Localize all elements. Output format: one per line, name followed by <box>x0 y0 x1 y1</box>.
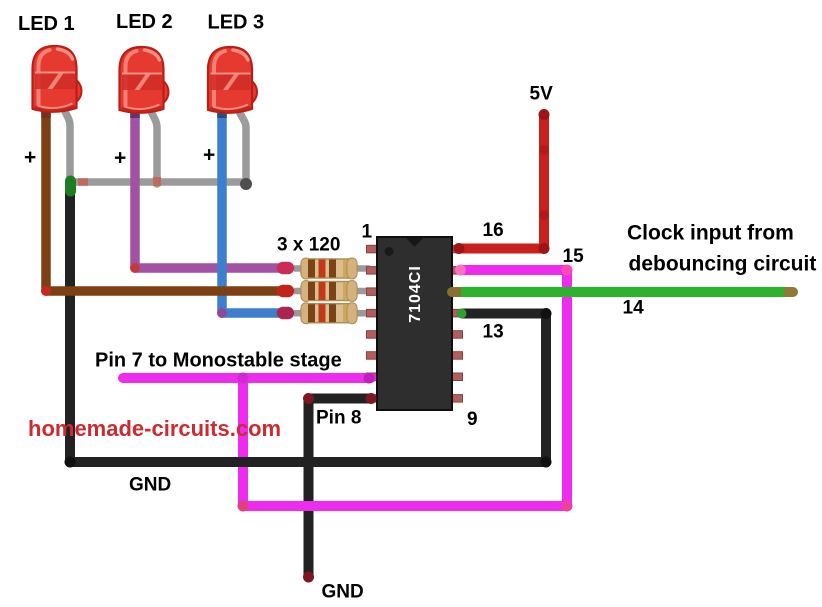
junction: dark cap bus right end <box>240 178 252 190</box>
resistor R1 120 ohm <box>301 258 357 279</box>
junction: red dot purple corner <box>130 263 140 273</box>
junction: corner dot <box>65 457 76 468</box>
wire: purple LED2 anode wire <box>135 108 281 268</box>
junction: red dot brown corner <box>41 286 51 296</box>
wire: pin 8 black wire <box>309 399 372 577</box>
wire: gray lead resistor R3 left <box>294 310 303 317</box>
svg-text:+: + <box>203 144 215 167</box>
wire: black GND net (left riser, bottom bus, right riser, pin13 run) <box>70 188 546 462</box>
node: pink cap at pin 15 <box>455 265 466 276</box>
svg-text:1: 1 <box>362 222 373 243</box>
svg-text:3 x 120: 3 x 120 <box>277 235 340 256</box>
svg-text:+: + <box>24 146 36 169</box>
wire: magenta pin 15 route <box>243 270 567 506</box>
svg-text:homemade-circuits.com: homemade-circuits.com <box>28 416 281 441</box>
wire: gray lead resistor R1 right to pin 2 <box>355 265 370 272</box>
svg-text:Pin 8: Pin 8 <box>316 408 361 429</box>
svg-text:GND: GND <box>322 582 364 603</box>
wire: magenta riser (under GND bus) <box>238 378 248 506</box>
junction: rose corner dot <box>238 501 249 512</box>
junction: dark red dot pin8 corner <box>303 393 314 404</box>
svg-text:5V: 5V <box>530 84 554 105</box>
resistor R2 120 ohm <box>301 281 357 302</box>
LED D1 <box>33 46 82 112</box>
junction: pink corner dot <box>562 501 573 512</box>
svg-text:LED 2: LED 2 <box>116 11 173 33</box>
svg-text:14: 14 <box>623 298 645 319</box>
junction: corner dot <box>541 457 552 468</box>
wire: red 5V wire pin 16 <box>456 116 544 249</box>
wire: LED1 cathode gray lead <box>63 106 70 184</box>
svg-text:13: 13 <box>483 322 504 343</box>
svg-text:LED 1: LED 1 <box>18 13 75 35</box>
node: green junction cap (cathode bus to GND) <box>65 181 76 191</box>
node: dark red dot at pin 8 <box>366 393 377 404</box>
svg-text:debouncing circuit: debouncing circuit <box>629 253 817 276</box>
wire: brown LED1 anode wire <box>46 108 281 291</box>
wire: LED1 anode stub <box>41 105 51 118</box>
junction: salmon segment on bus <box>78 178 88 186</box>
wire: gray lead resistor R2 right to pin 3 <box>355 288 370 295</box>
node: green cap at pin 13 <box>457 309 467 319</box>
svg-text:7104CI: 7104CI <box>407 265 424 323</box>
wire: green clock wire pin 14 <box>461 287 788 297</box>
node: crimson cap purple wire end <box>283 262 288 275</box>
junction: dark red corner dot <box>539 243 550 254</box>
node: red cap 5V end <box>539 109 550 120</box>
svg-text:15: 15 <box>563 246 585 267</box>
wire: LED2 anode stub <box>130 105 140 118</box>
wire: LED3 anode stub <box>217 105 227 118</box>
node: dark red GND cap bottom <box>303 572 314 583</box>
node: olive tip right end <box>788 287 793 297</box>
svg-text:LED 3: LED 3 <box>208 12 265 34</box>
svg-text:Clock input from: Clock input from <box>627 222 794 245</box>
wire: gray lead resistor R2 left <box>294 288 303 295</box>
junction: red wire joint <box>539 210 549 220</box>
junction: purple dot blue corner <box>217 308 227 318</box>
svg-text:Pin 7 to Monostable stage: Pin 7 to Monostable stage <box>95 350 342 372</box>
junction: tee dot <box>238 373 249 384</box>
wire: LED2 cathode gray lead <box>150 108 157 184</box>
node: dark red dot at pin 16 <box>454 243 465 254</box>
junction: pink corner dot <box>562 265 573 276</box>
wire: gray lead resistor R1 left <box>294 265 303 272</box>
wire: gray lead resistor R3 right to pin 4 <box>355 310 370 317</box>
svg-text:GND: GND <box>129 475 171 496</box>
wire: blue LED3 anode wire <box>222 108 281 313</box>
junction: salmon cap LED2 cathode <box>153 177 161 186</box>
wire: gray cathode bus <box>70 178 246 186</box>
IC U1 IC4017 <box>367 237 463 410</box>
svg-text:16: 16 <box>483 220 504 241</box>
svg-text:+: + <box>114 147 126 170</box>
junction: red wire joint <box>539 145 549 155</box>
node: dark magenta dot at pin 7 <box>364 373 375 384</box>
junction: corner dot <box>541 308 552 319</box>
node: crimson cap blue wire end <box>283 307 288 320</box>
wire: magenta pin 7 wire <box>123 373 371 383</box>
svg-text:9: 9 <box>467 409 478 430</box>
resistor R3 120 ohm <box>301 303 357 324</box>
wire: olive cap at pin 14 <box>452 287 464 297</box>
LED D3 <box>208 47 257 113</box>
node: red cap brown wire end <box>283 285 288 298</box>
wire: LED3 cathode gray lead <box>238 108 246 184</box>
LED D2 <box>120 47 169 113</box>
